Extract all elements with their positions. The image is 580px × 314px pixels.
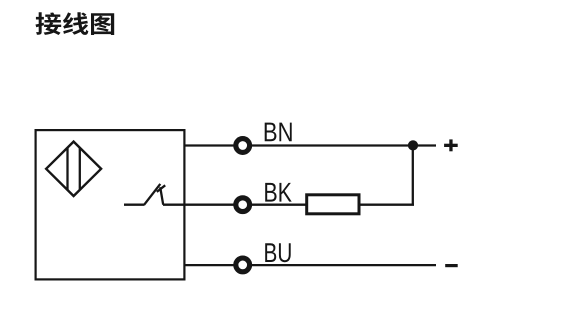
terminal circle BN (236, 139, 250, 153)
wire riser up to junction (412, 146, 414, 205)
switch S1 riser (160, 187, 163, 205)
terminal circle BK (236, 198, 250, 212)
terminal circle BU (236, 258, 250, 272)
junction dot (408, 140, 418, 150)
load resistor R1 (307, 195, 359, 214)
label BK (265, 183, 276, 202)
sensor body box (36, 130, 185, 279)
proximity sensor symbol U1 (diamond) (46, 142, 101, 196)
label BN (265, 123, 277, 142)
title 接线图 (35, 12, 61, 35)
+ terminal (444, 144, 458, 147)
wire BK terminal to resistor (250, 204, 307, 206)
wire BK from box to terminal (184, 204, 236, 206)
diamond left chord (66, 148, 68, 190)
wire BN terminal to junction and + (250, 144, 437, 146)
switch S1 lever (144, 184, 160, 205)
wire BU terminal to minus (250, 264, 437, 266)
switch S1 left lead (124, 204, 144, 206)
switch S1 right lead (163, 204, 184, 206)
wire BU from box to terminal (184, 264, 236, 266)
wire BN from box to terminal (184, 144, 236, 146)
diamond right chord (79, 148, 81, 190)
label BU (265, 243, 276, 262)
wire resistor to riser (360, 204, 415, 206)
switch S1 actuator tick (157, 185, 165, 192)
- terminal (445, 264, 458, 267)
